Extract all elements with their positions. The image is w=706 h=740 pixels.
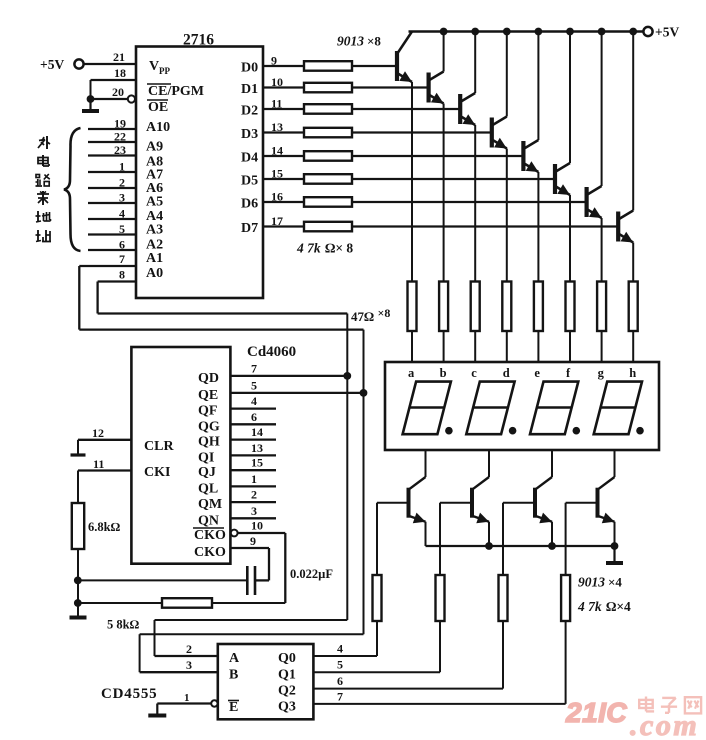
svg-text:13: 13 [271, 120, 283, 134]
wire Q4 emitter down to R24 [506, 149, 508, 282]
svg-text:47Ω: 47Ω [351, 309, 374, 324]
wire R22 to display pin b [443, 331, 445, 362]
decimal point dp4 [636, 427, 644, 435]
transistor Q1 9013 (segment driver) [397, 51, 412, 82]
svg-text:×8: ×8 [367, 34, 381, 49]
svg-text:13: 13 [251, 441, 263, 455]
svg-text:5 8kΩ: 5 8kΩ [107, 618, 140, 632]
svg-text:A5: A5 [146, 195, 163, 210]
svg-text:21IC: 21IC [565, 697, 627, 728]
svg-text:c: c [471, 366, 477, 380]
svg-text:Cd4060: Cd4060 [247, 344, 296, 360]
svg-text:4 7k: 4 7k [296, 241, 321, 256]
resistor R26 47Ω (segment) [566, 282, 575, 332]
watermark 电子网 [639, 697, 701, 714]
svg-text:2: 2 [251, 488, 257, 502]
svg-text:23: 23 [114, 143, 126, 157]
resistor R27 47Ω (segment) [597, 282, 606, 332]
wire Q9 emitter to common rail [425, 522, 427, 546]
wire Cd4060 QF pin 4 stub [230, 394, 276, 409]
transistor Q11 9013 (digit driver) [535, 477, 552, 523]
wire Q10 emitter to common rail [488, 522, 490, 546]
wire D4 resistor to Q5 base [352, 155, 523, 157]
transistor Q12 9013 (digit driver) [598, 477, 615, 523]
svg-text:5: 5 [337, 658, 343, 672]
wire Q5 emitter down to R25 [537, 172, 539, 282]
wire Cd4060 CKO(10) to R4 net [238, 519, 286, 604]
resistor R4 6.8kΩ [72, 503, 84, 549]
svg-text:A0: A0 [146, 266, 163, 281]
wire 2716 pin 8 (A0) down-left [98, 268, 136, 314]
wire Q8 collector to +5V rail [632, 32, 634, 211]
svg-text:21: 21 [113, 50, 125, 64]
svg-text:.com: .com [630, 709, 699, 740]
node pin18/pin20 junction [87, 95, 95, 103]
wire QE/A1 net down to CD4555 B [140, 330, 364, 673]
label 6.8kΩ [88, 520, 121, 534]
resistor R14 4.7k (D3 base) [304, 128, 352, 138]
svg-text:CKO: CKO [194, 528, 226, 543]
IC U2 Cd4060 counter [131, 344, 296, 564]
svg-text:7: 7 [337, 689, 343, 703]
resistor R23 47Ω (segment) [471, 282, 480, 332]
svg-text:QN: QN [198, 513, 219, 528]
wire R27 to display pin g [601, 331, 603, 362]
transistor Q2 9013 (segment driver) [429, 72, 444, 104]
7-segment digit 3 [530, 382, 578, 435]
wire C1 left plate to ground bus [78, 579, 231, 581]
bubble CKO pin 10 [231, 530, 238, 537]
svg-text:QE: QE [198, 388, 218, 403]
node rail junction 6 [566, 28, 574, 36]
svg-text:CKI: CKI [144, 465, 170, 480]
svg-text:d: d [503, 366, 510, 380]
wire R33 to CD4555 Q2 pin 6 [313, 621, 503, 689]
wire Q11 base [503, 503, 535, 575]
wire Q11 emitter to common rail [551, 522, 553, 546]
wire Q2 collector to +5V rail [443, 32, 445, 72]
wire 2716 pin 5 (address A3) [88, 222, 136, 236]
node rail junction 8 [629, 28, 637, 36]
svg-text:9013: 9013 [337, 34, 364, 49]
svg-text:2: 2 [119, 176, 125, 190]
label 地 (caption) [36, 211, 51, 222]
svg-text:4: 4 [337, 642, 343, 656]
node R4/C1 junction [74, 577, 82, 585]
svg-text:CE/PGM: CE/PGM [148, 84, 204, 99]
wire QD/A0 net down to CD4555 A [155, 314, 348, 657]
wire net A0 horizontal run [98, 312, 348, 314]
wire 2716 D5 pin 15 to resistor [263, 167, 304, 181]
svg-text:0.022µF: 0.022µF [290, 567, 333, 581]
svg-text:14: 14 [271, 144, 283, 158]
wire CD4555 E(1) to ground [157, 692, 211, 704]
svg-text:15: 15 [251, 456, 263, 470]
label 来 (caption) [37, 191, 49, 205]
svg-text:A: A [229, 651, 240, 666]
svg-text:9: 9 [271, 54, 277, 68]
resistor R12 4.7k (D1 base) [304, 83, 352, 93]
wire display digit 1 common to Q9 collector [425, 450, 427, 477]
svg-text:4 7k: 4 7k [577, 599, 602, 614]
svg-text:4: 4 [251, 394, 257, 408]
node rail junction 7 [598, 28, 606, 36]
wire Cd4060 CLR pin 12 [78, 426, 131, 440]
wire 2716 D2 pin 11 to resistor [263, 97, 304, 111]
display segment label c [471, 366, 477, 380]
wire R31 to CD4555 Q0 pin 4 [313, 621, 377, 656]
svg-text:18: 18 [114, 66, 126, 80]
svg-text:V: V [149, 59, 159, 74]
wire 2716 pin 19 (address A10) [88, 117, 136, 131]
transistor Q5 9013 (segment driver) [523, 140, 538, 172]
svg-text:11: 11 [93, 457, 104, 471]
resistor R21 47Ω (segment) [408, 282, 417, 332]
svg-text:22: 22 [114, 130, 126, 144]
ground G4 (enable) [148, 704, 166, 716]
svg-text:6: 6 [337, 674, 343, 688]
display segment label a [408, 366, 415, 380]
bubble OE pin 20 [128, 95, 135, 102]
wire Q3 collector to +5V rail [474, 32, 476, 94]
wire 2716 D6 pin 16 to resistor [263, 190, 304, 204]
node rail-ground junction [611, 542, 619, 550]
resistor R32 4.7k (digit base) [436, 575, 445, 621]
svg-text:D4: D4 [241, 151, 258, 166]
wire R34 to CD4555 Q3 pin 7 [313, 621, 565, 704]
svg-text:OE: OE [148, 100, 168, 115]
wire Q6 collector to +5V rail [569, 32, 571, 164]
svg-text:QG: QG [198, 419, 220, 434]
svg-text:b: b [440, 366, 447, 380]
svg-text:+5V: +5V [655, 25, 679, 40]
7-segment digit 2 [466, 382, 514, 435]
wire 2716 pin 3 (address A5) [88, 191, 136, 205]
resistor R17 4.7k (D6 base) [304, 197, 352, 207]
resistor R31 4.7k (digit base) [373, 575, 382, 621]
svg-text:D0: D0 [241, 61, 258, 76]
wire net A1 horizontal run [79, 328, 363, 330]
wire +5V terminal to 2716 pin 21 [84, 50, 137, 64]
wire Cd4060 CKI pin 11 [78, 457, 131, 471]
transistor Q7 9013 (segment driver) [587, 186, 602, 218]
wire 2716 D7 pin 17 to resistor [263, 214, 304, 228]
svg-text:×8: ×8 [378, 306, 391, 320]
svg-text:a: a [408, 366, 415, 380]
label 4 7kΩ×8 [296, 241, 353, 256]
resistor R22 47Ω (segment) [439, 282, 448, 332]
resistor R34 4.7k (digit base) [561, 575, 570, 621]
resistor R25 47Ω (segment) [534, 282, 543, 332]
svg-text:QJ: QJ [198, 465, 216, 480]
node rail-Q11 emitter [548, 542, 556, 550]
IC U1 2716 EPROM [136, 32, 263, 299]
svg-text:CLR: CLR [144, 439, 174, 454]
wire D6 resistor to Q7 base [352, 201, 587, 203]
svg-text:E: E [229, 700, 238, 715]
svg-text:×4: ×4 [608, 575, 622, 590]
wire 2716 pin 1 (address A7) [88, 160, 136, 174]
svg-text:17: 17 [271, 214, 283, 228]
svg-text:5: 5 [251, 379, 257, 393]
svg-text:h: h [629, 366, 636, 380]
label 址 (caption) [36, 230, 52, 242]
wire Cd4060 QH pin 14 stub [230, 425, 276, 440]
wire Q7 emitter down to R27 [601, 218, 603, 282]
svg-text:4: 4 [119, 207, 125, 221]
wire Q6 emitter down to R26 [569, 195, 571, 282]
wire R5 line [78, 602, 285, 604]
label CD4555 [101, 686, 157, 702]
wire 2716 pin 22 (address A9) [88, 130, 136, 144]
wire Q12 base [566, 503, 598, 575]
svg-text:D1: D1 [241, 82, 258, 97]
node rail junction 2 [440, 28, 448, 36]
watermark .com [630, 709, 699, 740]
svg-text:8: 8 [119, 268, 125, 282]
wire Cd4060 QD pin 7 [230, 362, 347, 376]
svg-text:14: 14 [251, 425, 263, 439]
brace for external address lines [64, 128, 81, 251]
wire Cd4060 QG pin 6 stub [230, 410, 276, 425]
svg-text:QI: QI [198, 450, 214, 465]
bubble E pin 1 [211, 700, 217, 706]
wire D0 resistor to Q1 base [352, 65, 397, 67]
wire display digit 4 common to Q12 collector [614, 450, 616, 477]
node rail junction 4 [503, 28, 511, 36]
wire R25 to display pin e [537, 331, 539, 362]
wire 2716 D3 pin 13 to resistor [263, 120, 304, 134]
display segment label g [598, 366, 605, 380]
wire Cd4060 QE pin 5 [230, 379, 363, 393]
wire 2716 D1 pin 10 to resistor [263, 75, 304, 89]
svg-text:QF: QF [198, 404, 217, 419]
svg-text:Q1: Q1 [278, 668, 296, 683]
node QE/A1 junction [360, 389, 368, 397]
wire Q2 emitter down to R22 [443, 104, 445, 282]
svg-text:A3: A3 [146, 223, 163, 238]
svg-text:QD: QD [198, 371, 219, 386]
wire Q10 base [440, 503, 472, 575]
svg-text:12: 12 [92, 426, 104, 440]
transistor Q9 9013 (digit driver) [409, 477, 426, 523]
display module DS1 (4-digit 7-seg) [385, 362, 659, 450]
7-segment digit 1 [403, 382, 451, 435]
wire R21 to display pin a [411, 331, 413, 362]
display segment label d [503, 366, 510, 380]
node rail-Q10 emitter [485, 542, 493, 550]
node QD/A0 junction [343, 372, 351, 380]
resistor R13 4.7k (D2 base) [304, 104, 352, 114]
decimal point dp2 [509, 427, 517, 435]
transistor Q8 9013 (segment driver) [618, 211, 633, 243]
svg-text:D7: D7 [241, 221, 258, 236]
resistor R16 4.7k (D5 base) [304, 174, 352, 184]
wire display digit 2 common to Q10 collector [488, 450, 490, 477]
svg-text:D5: D5 [241, 174, 258, 189]
svg-text:Ω×4: Ω×4 [606, 599, 631, 614]
decimal point dp3 [573, 427, 581, 435]
svg-text:1: 1 [184, 692, 190, 704]
wire 2716 pin 4 (address A4) [88, 207, 136, 221]
node rail junction 5 [535, 28, 543, 36]
display segment label h [629, 366, 636, 380]
wire Cd4060 CKO(9) [230, 534, 269, 580]
wire Cd4060 QJ pin 15 stub [230, 456, 276, 471]
resistor R18 4.7k (D7 base) [304, 222, 352, 232]
svg-text:Ω× 8: Ω× 8 [325, 241, 353, 256]
transistor Q10 9013 (digit driver) [472, 477, 489, 523]
svg-text:Q0: Q0 [278, 651, 296, 666]
svg-text:g: g [598, 366, 605, 380]
wire R26 to display pin f [569, 331, 571, 362]
svg-text:e: e [534, 366, 540, 380]
wire 2716 pin 2 (address A6) [88, 176, 136, 190]
decimal point dp1 [445, 427, 453, 435]
display segment label e [534, 366, 540, 380]
label 电 (caption) [38, 155, 49, 166]
wire Q4 collector to +5V rail [506, 32, 508, 117]
svg-text:QM: QM [198, 497, 222, 512]
svg-text:10: 10 [251, 519, 263, 533]
display segment label f [566, 366, 571, 380]
wire 2716 pin 18 [91, 66, 137, 99]
wire Q5 collector to +5V rail [537, 32, 539, 141]
svg-text:B: B [229, 668, 238, 683]
wire D2 resistor to Q3 base [352, 108, 460, 110]
svg-text:Q3: Q3 [278, 700, 296, 715]
svg-text:9: 9 [250, 534, 256, 548]
7-segment digit 4 [594, 382, 642, 435]
svg-text:11: 11 [271, 97, 282, 111]
resistor R33 4.7k (digit base) [499, 575, 508, 621]
svg-text:A1: A1 [146, 251, 163, 266]
svg-text:1: 1 [251, 472, 257, 486]
node R4/R5 junction [74, 599, 82, 607]
svg-text:D2: D2 [241, 104, 258, 119]
wire Cd4060 QM pin 2 stub [230, 488, 276, 503]
svg-text:6.8kΩ: 6.8kΩ [88, 520, 121, 534]
label 路 (caption) [36, 174, 50, 186]
svg-text:5: 5 [119, 222, 125, 236]
wire Cd4060 QI pin 13 stub [230, 441, 276, 456]
svg-text:9013: 9013 [578, 575, 605, 590]
wire 2716 pin 6 (address A2) [88, 238, 136, 252]
svg-text:CD4555: CD4555 [101, 686, 157, 702]
transistor Q4 9013 (segment driver) [492, 117, 507, 149]
wire R23 to display pin c [474, 331, 476, 362]
wire D5 resistor to Q6 base [352, 178, 555, 180]
power terminal +5V (right) [643, 25, 679, 40]
label 5 8kΩ [107, 618, 140, 632]
svg-text:QL: QL [198, 481, 218, 496]
power terminal +5V (left) [40, 57, 84, 72]
wire Q3 emitter down to R23 [474, 125, 476, 282]
wire Q12 emitter to common rail [614, 522, 616, 546]
svg-text:6: 6 [251, 410, 257, 424]
wire display digit 3 common to Q11 collector [551, 450, 553, 477]
svg-text:2: 2 [186, 642, 192, 656]
capacitor C1 0.022µF [230, 566, 255, 595]
resistor R28 47Ω (segment) [629, 282, 638, 332]
resistor R24 47Ω (segment) [502, 282, 511, 332]
label 9013×4 [578, 575, 622, 590]
label 4 7kΩ×4 [577, 599, 631, 614]
wire Q1 collector to rail corner [397, 32, 412, 55]
svg-text:15: 15 [271, 167, 283, 181]
resistor R11 4.7k (D0 base) [304, 61, 352, 70]
transistor Q6 9013 (segment driver) [555, 163, 570, 195]
label 47Ω×8 [351, 306, 390, 324]
display segment label b [440, 366, 447, 380]
wire Cd4060 QN pin 3 stub [230, 504, 276, 519]
wire common emitter rail [426, 545, 615, 547]
wire Q1 emitter down to R21 [411, 82, 413, 282]
svg-text:D3: D3 [241, 127, 258, 142]
wire +5V rail (top) [409, 30, 644, 33]
wire 2716 pin 23 (address A8) [88, 143, 136, 157]
transistor Q3 9013 (segment driver) [460, 93, 475, 125]
wire Q7 collector to +5V rail [601, 32, 603, 187]
wire Q9 base [377, 503, 409, 575]
resistor R15 4.7k (D4 base) [304, 151, 352, 161]
ground G3 (timing net) [70, 616, 87, 620]
wire D7 resistor to Q8 base [352, 225, 618, 227]
resistor R5 5.8kΩ [162, 598, 212, 608]
svg-text:6: 6 [119, 238, 125, 252]
svg-text:CKO: CKO [194, 545, 226, 560]
label 外 (caption external-circuit address) [38, 136, 50, 149]
svg-text:19: 19 [114, 117, 126, 131]
wire D3 resistor to Q4 base [352, 131, 492, 133]
wire Cd4060 QL pin 1 stub [230, 472, 276, 487]
wire R32 to CD4555 Q1 pin 5 [313, 621, 440, 672]
svg-text:PP: PP [159, 66, 170, 76]
IC U3 CD4555 decoder [218, 644, 314, 719]
svg-text:D6: D6 [241, 197, 258, 212]
wire R24 to display pin d [506, 331, 508, 362]
svg-text:7: 7 [119, 252, 125, 266]
label 0.022µF [290, 567, 333, 581]
svg-text:3: 3 [186, 658, 192, 672]
wire 2716 D0 pin 9 to resistor [263, 54, 304, 68]
svg-text:7: 7 [251, 362, 257, 376]
svg-text:2716: 2716 [183, 32, 214, 49]
ground G2 (digit drivers) [606, 546, 623, 563]
wire CD4555 A pin 2 [155, 642, 218, 656]
svg-text:3: 3 [251, 504, 257, 518]
wire 2716 pin 20 from OE bubble [91, 85, 128, 99]
ground tick on CLR [71, 440, 86, 455]
wire CD4555 B pin 3 [140, 658, 218, 672]
wire D1 resistor to Q2 base [352, 86, 429, 88]
wire R4 bottom to ground [77, 549, 79, 618]
svg-text:10: 10 [271, 75, 283, 89]
svg-text:3: 3 [119, 191, 125, 205]
svg-text:1: 1 [119, 160, 125, 174]
svg-text:A10: A10 [146, 120, 170, 135]
wire R28 to display pin h [632, 331, 634, 362]
node rail junction 3 [471, 28, 479, 36]
svg-text:+5V: +5V [40, 57, 64, 72]
ground G1 (OE/CE net) [82, 99, 99, 111]
wire CKI to R4 [77, 471, 79, 504]
svg-text:Q2: Q2 [278, 684, 296, 699]
svg-text:QH: QH [198, 435, 220, 450]
svg-text:16: 16 [271, 190, 283, 204]
wire 2716 pin 7 (A1) down-left [79, 252, 136, 330]
svg-text:20: 20 [112, 85, 124, 99]
